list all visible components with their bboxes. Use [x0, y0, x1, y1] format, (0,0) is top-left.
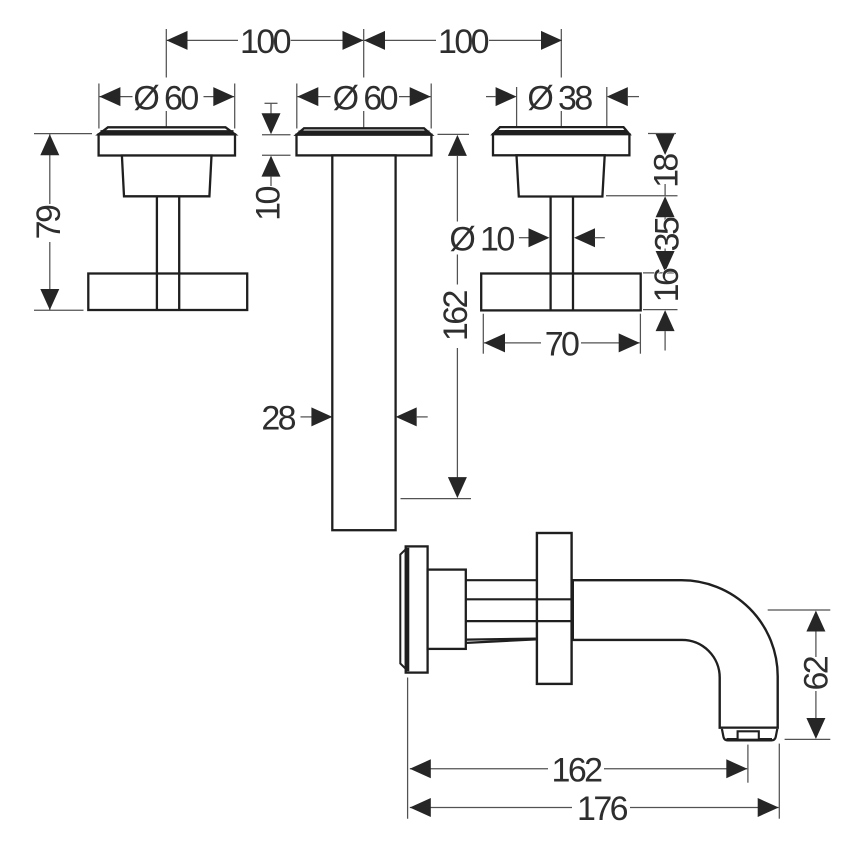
dim 100 right span — [364, 23, 562, 61]
svg-text:100: 100 — [438, 23, 489, 61]
spout escutcheon rim front — [297, 128, 432, 134]
svg-text:Ø 60: Ø 60 — [333, 79, 398, 117]
dim 28 tube width — [261, 400, 427, 438]
wall flange front plate — [406, 546, 428, 672]
dim Ø60 spout escutcheon — [297, 79, 431, 128]
dim 79 height left handle — [30, 134, 92, 311]
supply pipe lines — [466, 580, 571, 643]
extension line wall face — [407, 678, 409, 819]
right handle escutcheon rim — [493, 127, 629, 134]
dim 100 left span — [167, 23, 364, 61]
dim 162 spout front drop — [401, 134, 476, 498]
left handle cone — [122, 156, 212, 197]
wall flange back plate — [400, 549, 406, 669]
dim 35 — [606, 196, 687, 272]
dim Ø60 left handle — [99, 79, 235, 128]
extension line outlet center — [747, 745, 749, 783]
svg-text:62: 62 — [798, 656, 836, 690]
svg-text:100: 100 — [240, 23, 291, 61]
spout escutcheon side — [537, 533, 572, 684]
svg-text:162: 162 — [437, 290, 475, 341]
svg-text:176: 176 — [577, 790, 628, 828]
left handle crossbar — [88, 274, 247, 311]
svg-text:10: 10 — [250, 187, 288, 221]
dim 162 projection side — [410, 751, 748, 789]
centerline right handle — [560, 29, 562, 127]
right handle cone — [517, 155, 605, 196]
right handle escutcheon plate — [493, 134, 629, 155]
valve body — [428, 570, 466, 649]
dim Ø10 stem — [449, 220, 604, 258]
svg-text:Ø 60: Ø 60 — [133, 79, 198, 117]
dim 18 — [648, 134, 686, 196]
dim 176 projection total — [410, 790, 779, 828]
centerline left handle — [165, 29, 167, 127]
left handle escutcheon plate — [99, 134, 235, 155]
dim 62 spout drop side — [768, 610, 836, 739]
svg-text:Ø 10: Ø 10 — [449, 220, 514, 258]
svg-text:162: 162 — [552, 751, 603, 789]
spout escutcheon plate front — [297, 135, 432, 156]
svg-text:16: 16 — [648, 268, 686, 302]
right handle stem — [551, 197, 573, 310]
spout tube front — [332, 155, 395, 530]
right handle crossbar — [481, 274, 641, 311]
svg-text:70: 70 — [545, 326, 579, 364]
extension line spout tip — [778, 744, 780, 819]
dim 16 — [643, 268, 686, 350]
left handle stem — [157, 196, 179, 309]
svg-text:18: 18 — [648, 154, 686, 188]
dim 70 crossbar — [483, 314, 640, 364]
aerator — [722, 729, 777, 741]
svg-text:35: 35 — [649, 217, 687, 251]
dim 10 rosette thickness — [250, 103, 291, 221]
centerline spout front — [363, 29, 365, 128]
svg-text:Ø 38: Ø 38 — [527, 79, 592, 117]
svg-text:79: 79 — [30, 205, 68, 239]
left handle escutcheon rim — [99, 127, 235, 134]
spout tube side — [573, 580, 778, 728]
svg-text:28: 28 — [261, 400, 295, 438]
dim Ø38 right handle — [486, 79, 639, 127]
